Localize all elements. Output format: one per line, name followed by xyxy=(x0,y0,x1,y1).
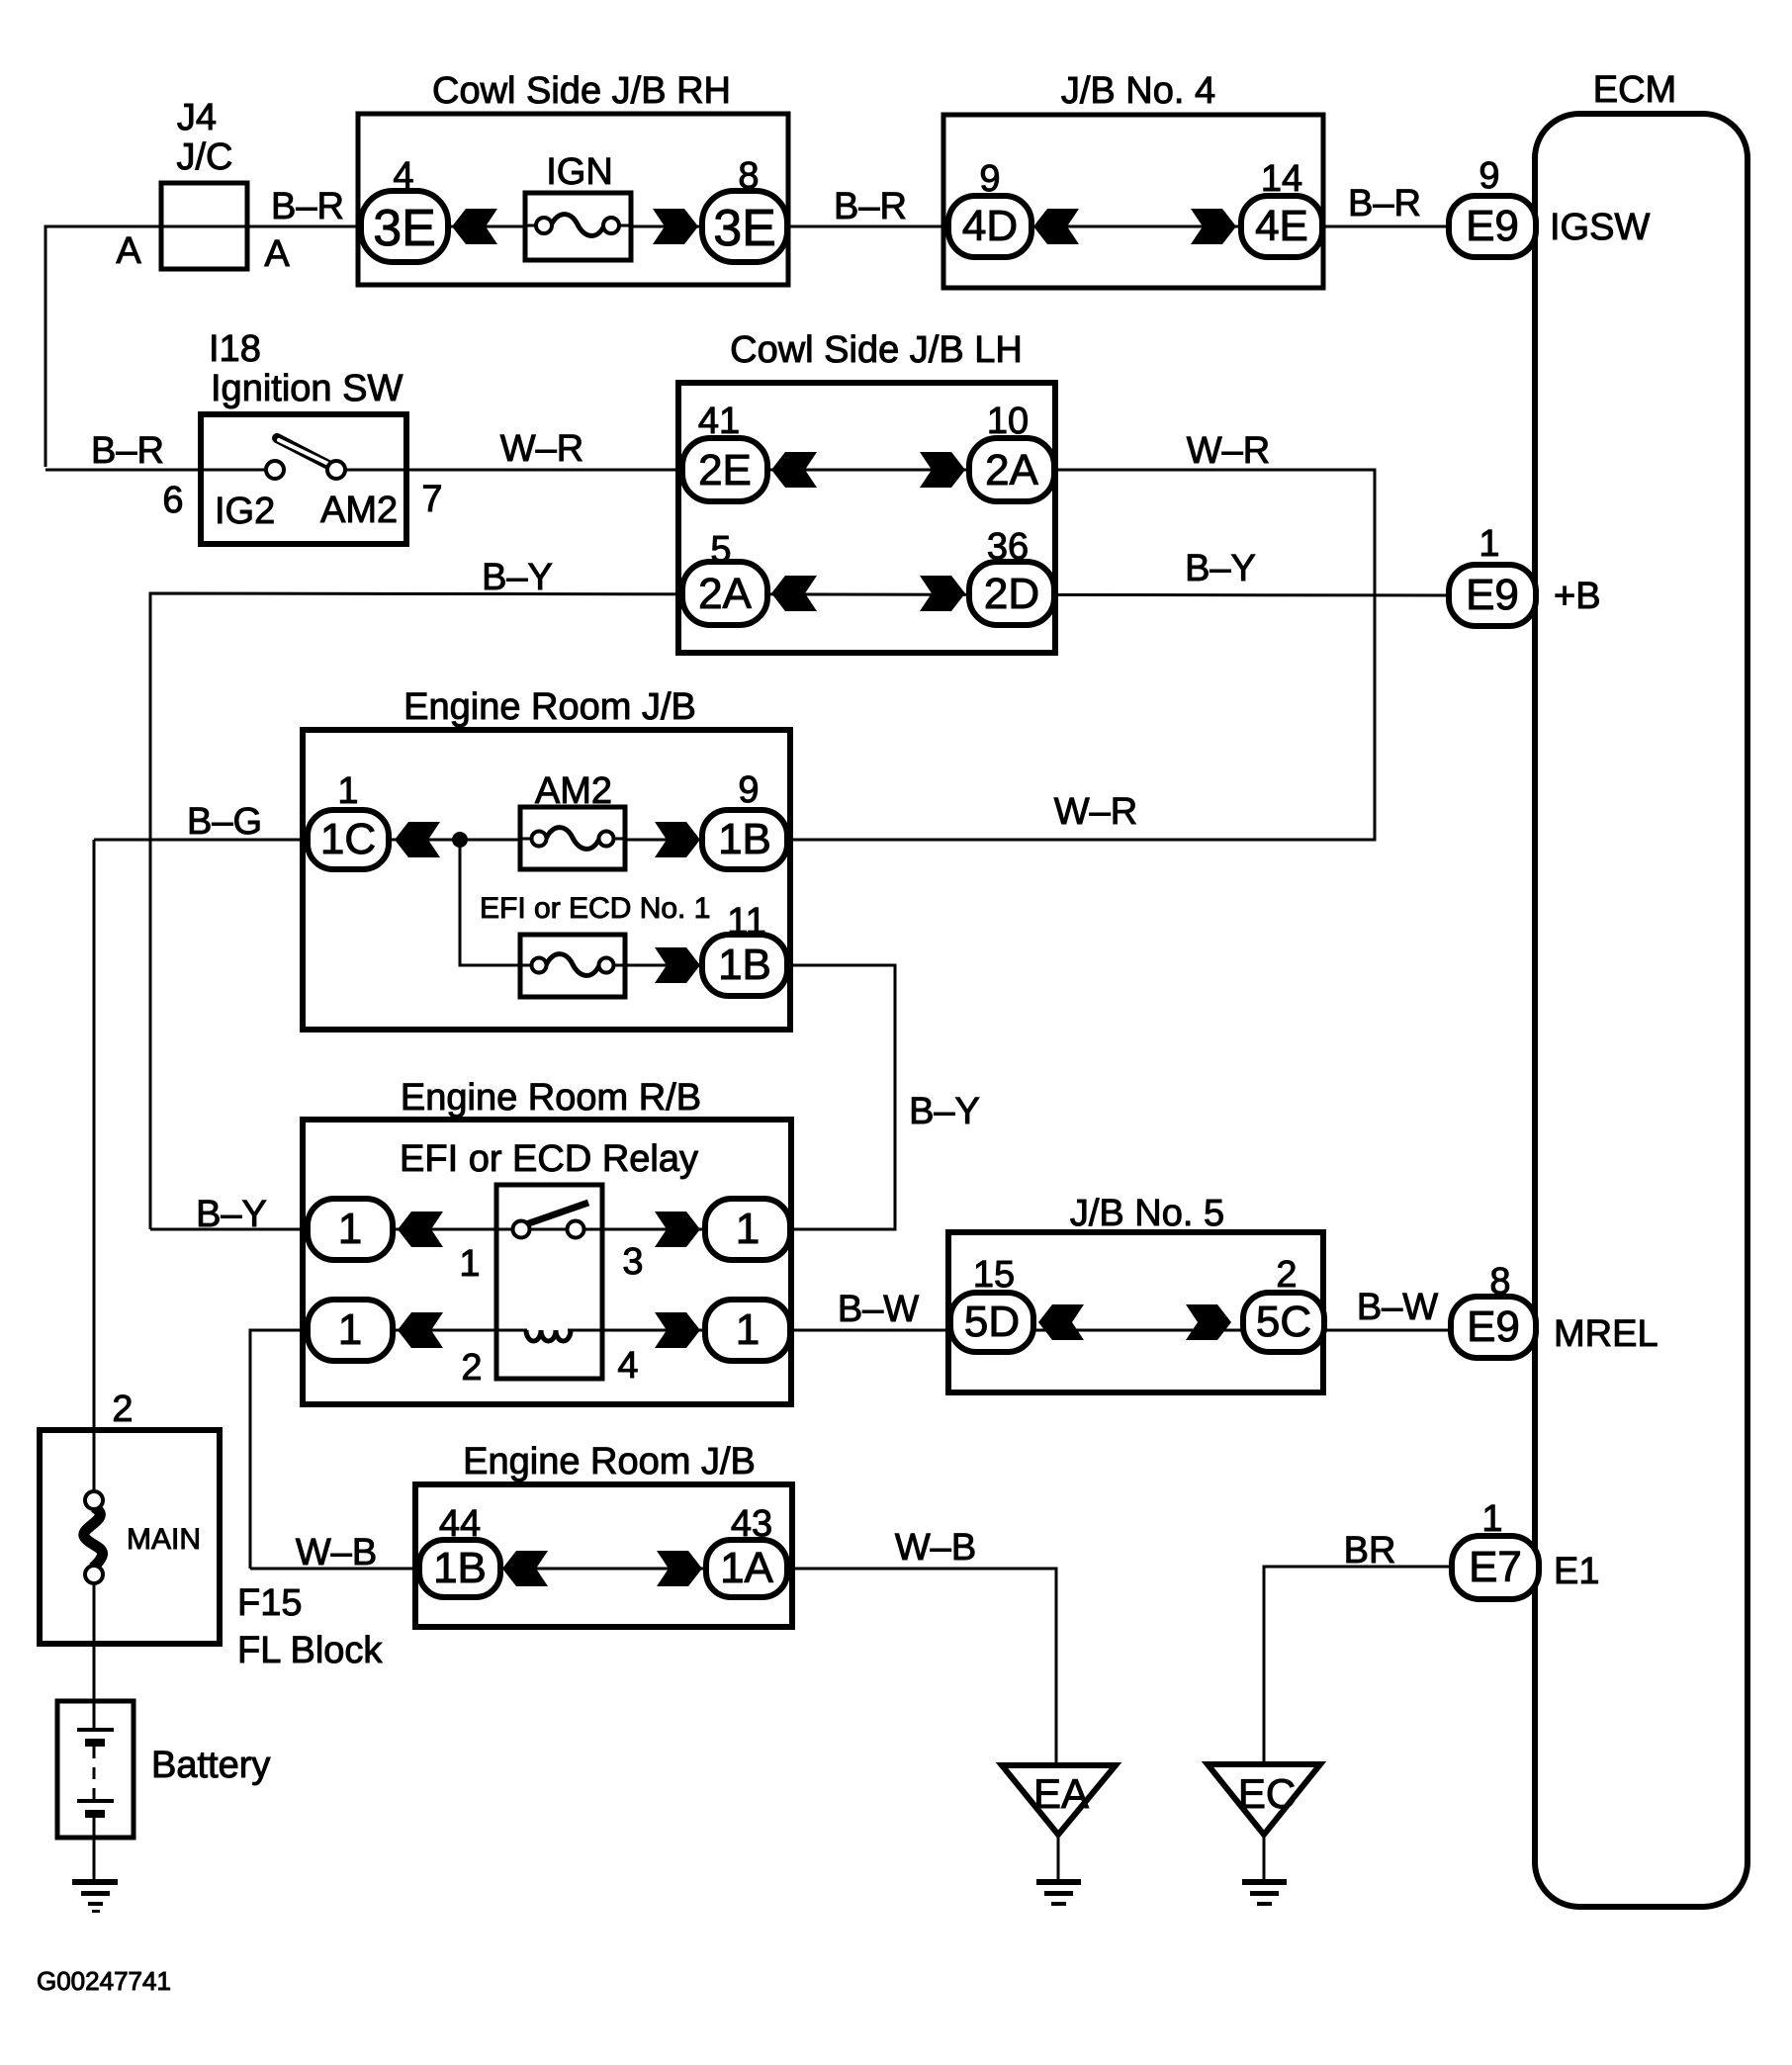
svg-text:AM2: AM2 xyxy=(320,490,398,531)
svg-text:4: 4 xyxy=(617,1345,638,1387)
svg-text:E1: E1 xyxy=(1554,1551,1599,1592)
svg-text:8: 8 xyxy=(738,155,759,197)
svg-text:ECM: ECM xyxy=(1593,69,1676,111)
svg-text:9: 9 xyxy=(979,158,1000,200)
svg-text:2: 2 xyxy=(112,1389,133,1430)
svg-text:36: 36 xyxy=(987,526,1029,568)
svg-text:B–Y: B–Y xyxy=(196,1194,267,1235)
svg-text:Ignition SW: Ignition SW xyxy=(211,368,403,409)
svg-text:9: 9 xyxy=(1478,155,1499,197)
svg-text:1B: 1B xyxy=(718,941,771,989)
svg-text:1: 1 xyxy=(1481,1498,1502,1540)
svg-text:1: 1 xyxy=(736,1205,760,1253)
svg-text:EFI or ECD Relay: EFI or ECD Relay xyxy=(400,1138,698,1180)
svg-text:3: 3 xyxy=(622,1241,643,1283)
svg-text:1: 1 xyxy=(338,1305,362,1354)
svg-text:B–R: B–R xyxy=(91,430,164,472)
svg-text:7: 7 xyxy=(421,479,442,520)
svg-text:8: 8 xyxy=(1489,1261,1510,1302)
svg-text:F15: F15 xyxy=(237,1582,302,1624)
svg-text:W–B: W–B xyxy=(296,1532,377,1573)
svg-text:MREL: MREL xyxy=(1554,1313,1658,1355)
svg-text:G00247741: G00247741 xyxy=(37,1966,171,1996)
svg-text:2: 2 xyxy=(461,1347,482,1389)
svg-text:I18: I18 xyxy=(209,328,261,370)
svg-text:Cowl Side J/B LH: Cowl Side J/B LH xyxy=(730,329,1023,371)
svg-text:IGSW: IGSW xyxy=(1550,207,1650,248)
svg-text:6: 6 xyxy=(162,480,183,521)
svg-text:Engine Room J/B: Engine Room J/B xyxy=(403,686,696,728)
svg-text:10: 10 xyxy=(987,401,1029,442)
svg-text:2A: 2A xyxy=(985,446,1038,494)
svg-text:J/C: J/C xyxy=(177,136,233,178)
svg-text:14: 14 xyxy=(1261,158,1302,200)
svg-text:2E: 2E xyxy=(698,446,752,494)
svg-text:4E: 4E xyxy=(1255,202,1308,250)
svg-text:AM2: AM2 xyxy=(535,770,612,812)
svg-text:W–R: W–R xyxy=(1054,791,1137,833)
svg-text:3E: 3E xyxy=(713,200,776,257)
svg-text:B–W: B–W xyxy=(838,1289,919,1330)
svg-text:Battery: Battery xyxy=(151,1745,270,1786)
svg-text:B–Y: B–Y xyxy=(909,1091,980,1132)
svg-text:9: 9 xyxy=(738,769,759,811)
svg-text:2: 2 xyxy=(1276,1254,1297,1296)
svg-text:B–Y: B–Y xyxy=(482,557,553,598)
svg-text:E9: E9 xyxy=(1467,1302,1520,1351)
svg-text:IGN: IGN xyxy=(546,151,613,193)
svg-text:EFI or ECD No. 1: EFI or ECD No. 1 xyxy=(480,892,710,925)
svg-text:B–W: B–W xyxy=(1357,1287,1438,1328)
svg-text:B–R: B–R xyxy=(1348,183,1421,224)
svg-text:1B: 1B xyxy=(718,815,771,863)
svg-text:A: A xyxy=(264,233,290,275)
svg-text:J4: J4 xyxy=(177,97,217,138)
svg-text:3E: 3E xyxy=(373,200,436,257)
svg-text:4: 4 xyxy=(393,155,413,197)
svg-text:1C: 1C xyxy=(320,815,376,863)
svg-text:1A: 1A xyxy=(720,1544,773,1592)
svg-text:1: 1 xyxy=(337,770,358,812)
svg-text:EC: EC xyxy=(1238,1770,1296,1817)
svg-text:1: 1 xyxy=(1478,523,1499,565)
svg-text:E9: E9 xyxy=(1466,202,1519,250)
svg-text:J/B No. 4: J/B No. 4 xyxy=(1061,70,1215,112)
svg-text:1: 1 xyxy=(459,1243,480,1285)
svg-text:41: 41 xyxy=(698,401,740,442)
svg-text:W–B: W–B xyxy=(895,1527,976,1569)
svg-text:15: 15 xyxy=(973,1254,1015,1296)
svg-text:5: 5 xyxy=(710,529,731,571)
svg-text:1: 1 xyxy=(736,1305,760,1354)
svg-text:E7: E7 xyxy=(1469,1543,1522,1591)
svg-text:B–Y: B–Y xyxy=(1185,548,1256,589)
svg-text:2A: 2A xyxy=(698,570,752,618)
svg-text:43: 43 xyxy=(731,1503,772,1545)
svg-text:44: 44 xyxy=(439,1503,481,1545)
svg-text:W–R: W–R xyxy=(1187,430,1270,472)
svg-text:5C: 5C xyxy=(1256,1298,1311,1346)
svg-text:4D: 4D xyxy=(962,202,1018,250)
svg-text:11: 11 xyxy=(727,901,765,943)
svg-text:MAIN: MAIN xyxy=(127,1523,201,1556)
svg-text:Cowl Side J/B RH: Cowl Side J/B RH xyxy=(432,70,731,112)
svg-text:5D: 5D xyxy=(964,1298,1020,1346)
svg-text:Engine Room J/B: Engine Room J/B xyxy=(463,1441,756,1482)
svg-text:B–R: B–R xyxy=(834,186,907,227)
svg-text:Engine Room R/B: Engine Room R/B xyxy=(401,1077,701,1119)
svg-text:BR: BR xyxy=(1344,1530,1396,1571)
svg-text:2D: 2D xyxy=(984,570,1039,618)
svg-text:IG2: IG2 xyxy=(215,491,275,532)
svg-text:A: A xyxy=(116,230,141,272)
svg-text:B–R: B–R xyxy=(271,186,344,227)
svg-text:W–R: W–R xyxy=(500,428,583,470)
svg-text:+B: +B xyxy=(1554,576,1601,617)
svg-text:FL Block: FL Block xyxy=(237,1630,383,1671)
svg-text:EA: EA xyxy=(1033,1770,1089,1817)
svg-text:E9: E9 xyxy=(1466,571,1519,619)
svg-text:J/B No. 5: J/B No. 5 xyxy=(1070,1193,1224,1234)
svg-text:1: 1 xyxy=(338,1205,362,1253)
svg-text:B–G: B–G xyxy=(187,801,262,843)
svg-text:1B: 1B xyxy=(433,1544,487,1592)
